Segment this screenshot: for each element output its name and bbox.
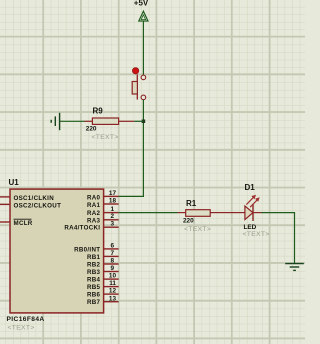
svg-text:11: 11	[109, 280, 116, 287]
pin 7 RB1	[104, 255, 119, 257]
svg-text:U1: U1	[9, 178, 20, 187]
pin 11 RB5	[104, 286, 119, 288]
wire button to pin 17 RA0	[119, 100, 144, 197]
pin 9 RB3	[104, 271, 119, 273]
svg-text:220: 220	[86, 126, 97, 133]
button stem	[136, 74, 138, 99]
pin 8 RB2	[104, 263, 119, 265]
pin 13 RB7	[104, 301, 119, 303]
ground (right)	[285, 264, 304, 271]
power terminal +5V	[134, 0, 149, 21]
pin MCLR stub	[0, 221, 10, 223]
led D1	[230, 183, 270, 238]
svg-text:<TEXT>: <TEXT>	[184, 226, 211, 233]
svg-text:RB7: RB7	[87, 299, 101, 306]
D1 anode pin stub	[230, 212, 245, 214]
svg-text:R9: R9	[93, 107, 104, 116]
R1 right pin stub	[210, 212, 226, 214]
pin 6 RB0/INT	[104, 248, 119, 250]
svg-text:1: 1	[110, 206, 114, 213]
U1 body	[10, 189, 104, 313]
svg-text:OSC1/CLKIN: OSC1/CLKIN	[14, 195, 55, 202]
pin 3 RA4/TOCKI	[104, 226, 119, 228]
svg-text:RA0: RA0	[87, 194, 101, 201]
wire R9 to junction	[134, 120, 143, 122]
pin 12 RB6	[104, 293, 119, 295]
wire +5V to button top terminal	[142, 21, 144, 75]
svg-text:8: 8	[110, 258, 114, 265]
svg-text:6: 6	[110, 243, 114, 250]
svg-text:MCLR: MCLR	[14, 220, 33, 227]
svg-text:RA1: RA1	[87, 202, 101, 209]
svg-text:RB3: RB3	[87, 269, 101, 276]
svg-text:RA3: RA3	[87, 217, 101, 224]
svg-text:RA4/TOCKI: RA4/TOCKI	[64, 225, 100, 232]
svg-text:LED: LED	[244, 224, 257, 231]
svg-text:<TEXT>: <TEXT>	[243, 231, 270, 238]
resistor R1	[178, 199, 227, 233]
svg-text:2: 2	[110, 213, 114, 220]
svg-text:+5V: +5V	[134, 0, 149, 7]
svg-text:17: 17	[109, 190, 117, 197]
D1 cathode pin stub	[253, 212, 262, 214]
svg-text:R1: R1	[186, 199, 197, 208]
svg-text:OSC2/CLKOUT: OSC2/CLKOUT	[14, 202, 62, 209]
svg-text:10: 10	[109, 273, 117, 280]
svg-text:220: 220	[183, 218, 194, 225]
svg-text:7: 7	[110, 250, 114, 257]
pin 1 RA2	[104, 212, 119, 214]
svg-text:9: 9	[110, 265, 114, 272]
wire D1 to right ground	[262, 213, 295, 264]
svg-text:<TEXT>: <TEXT>	[92, 134, 119, 141]
svg-text:RB4: RB4	[87, 277, 101, 284]
svg-text:RB5: RB5	[87, 284, 101, 291]
R9 right pin stub	[119, 120, 135, 122]
wire R1 to D1	[226, 212, 230, 214]
svg-text:<TEXT>: <TEXT>	[8, 325, 35, 332]
D1 cathode bar	[252, 204, 254, 221]
resistor R9	[85, 107, 135, 141]
junction node (R9 / +5V net)	[142, 120, 146, 124]
svg-text:PIC16F84A: PIC16F84A	[7, 316, 45, 323]
R9 left pin stub	[85, 120, 93, 122]
svg-text:RB0/INT: RB0/INT	[74, 246, 100, 253]
svg-text:RB6: RB6	[87, 292, 101, 299]
pin 2 RA3	[104, 219, 119, 221]
svg-text:18: 18	[109, 198, 117, 205]
R1 body	[186, 210, 211, 217]
svg-text:D1: D1	[245, 183, 256, 192]
R9 body	[92, 118, 118, 124]
ground (left, rotated)	[51, 113, 59, 130]
pin OSC1/CLKIN stub	[0, 196, 10, 198]
pin 18 RA1	[104, 203, 119, 205]
pin OSC2/CLKOUT stub	[0, 203, 10, 205]
wire RA2 to R1	[119, 212, 178, 214]
wire ground to R9	[60, 120, 85, 122]
D1 triangle	[245, 206, 253, 220]
button bottom terminal circle	[141, 95, 146, 100]
button body	[132, 82, 137, 95]
svg-text:RB2: RB2	[87, 261, 101, 268]
ic U1 PIC16F84A	[0, 178, 119, 331]
svg-text:12: 12	[109, 288, 117, 295]
svg-text:3: 3	[110, 221, 114, 228]
pin 10 RB4	[104, 278, 119, 280]
pin 17 RA0	[104, 195, 119, 197]
R1 left pin stub	[178, 212, 186, 214]
button top terminal circle	[141, 75, 146, 80]
svg-text:RB1: RB1	[87, 254, 101, 261]
button (interactive push button)	[132, 68, 146, 100]
svg-text:RA2: RA2	[87, 210, 101, 217]
D1 emission arrow 2	[250, 200, 257, 207]
button red actuator dot	[132, 68, 138, 74]
D1 emission arrow 1	[246, 197, 253, 204]
svg-text:13: 13	[109, 295, 117, 302]
